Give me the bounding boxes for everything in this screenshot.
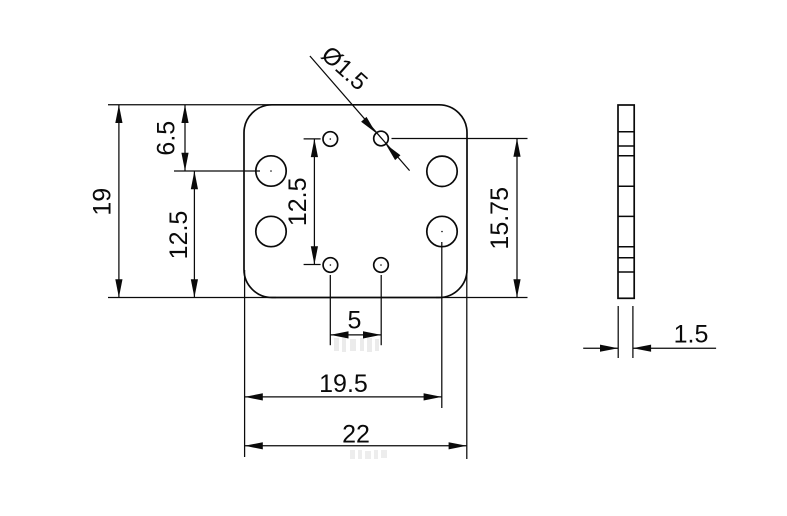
dimension line 1.5 left segment bbox=[583, 347, 618, 349]
svg-text:12.5: 12.5 bbox=[284, 177, 312, 226]
dimension line 12.5 inner bbox=[313, 139, 315, 265]
hole small top-right bbox=[374, 131, 389, 146]
side view plate outline bbox=[618, 105, 634, 298]
inner 12.5 bottom tick bbox=[304, 264, 321, 266]
extension line small-hole right (15.75) bbox=[392, 138, 528, 140]
arrow 22 right bbox=[449, 442, 467, 449]
extension line right-hole down (19.5) bbox=[441, 242, 443, 408]
extension line 5 right bbox=[380, 275, 382, 345]
dimension texts bbox=[89, 41, 709, 448]
arrowheads bbox=[115, 105, 651, 450]
hole large top-right bbox=[427, 156, 457, 186]
plate outline front view bbox=[244, 105, 467, 298]
hole large bottom-left bbox=[256, 216, 286, 246]
hole large bottom-right bbox=[427, 216, 457, 246]
arrow 12.5L bottom bbox=[191, 279, 198, 297]
svg-text:19.5: 19.5 bbox=[319, 370, 368, 398]
extension line left-hole-center (6.5 / 12.5) bbox=[174, 170, 260, 172]
arrow leader lower bbox=[386, 144, 401, 160]
svg-text:12.5: 12.5 bbox=[165, 211, 193, 260]
dimension line 1.5 right segment bbox=[633, 347, 716, 349]
hole small top-left bbox=[323, 132, 338, 147]
svg-text:22: 22 bbox=[342, 420, 370, 448]
arrow 12.5 inner top bbox=[311, 139, 318, 157]
dimension line 22 bbox=[245, 445, 467, 447]
side view hole edge lines bbox=[618, 132, 634, 272]
arrow 19 bottom bbox=[115, 279, 122, 297]
hole center dots bbox=[270, 138, 443, 266]
dimension line 5 bbox=[330, 334, 381, 336]
inner 12.5 top tick bbox=[304, 138, 321, 140]
hole large top-left bbox=[256, 156, 286, 186]
side extension line left (1.5) bbox=[617, 306, 619, 358]
dimension line 19.5 bbox=[245, 396, 442, 398]
dimension line 12.5 left bbox=[193, 171, 195, 298]
arrow 15.75 top bbox=[513, 139, 520, 157]
arrow 6.5 bottom bbox=[181, 153, 188, 171]
side extension line right (1.5) bbox=[632, 306, 634, 358]
svg-text:1.5: 1.5 bbox=[674, 321, 709, 349]
arrow leader upper bbox=[361, 117, 376, 133]
svg-text:6.5: 6.5 bbox=[153, 121, 181, 156]
extension line 5 left bbox=[329, 275, 331, 345]
arrow 6.5 top bbox=[181, 105, 188, 123]
arrow 22 left bbox=[245, 442, 263, 449]
dimension line 15.75 bbox=[516, 139, 518, 298]
arrow 19 top bbox=[115, 105, 122, 123]
extension line bottom-left (19 / 12.5) bbox=[108, 297, 276, 299]
arrow 15.75 bottom bbox=[513, 279, 520, 297]
extension line top (19 / 6.5) bbox=[108, 104, 276, 106]
arrow 1.5 right bbox=[633, 345, 651, 352]
arrow 19.5 left bbox=[245, 393, 263, 400]
hole small bottom-right bbox=[374, 258, 389, 273]
svg-text:5: 5 bbox=[348, 307, 362, 335]
hole small bottom-left bbox=[323, 258, 338, 273]
extension line plate-right extended bbox=[466, 270, 468, 459]
extension line bottom-right (15.75) bbox=[436, 297, 528, 299]
extension line plate-left extended bbox=[244, 270, 246, 457]
faint watermark remnant under 5 dimension bbox=[334, 338, 379, 352]
arrow 5 right bbox=[363, 331, 381, 338]
faint watermark remnant under 22 dimension bbox=[350, 450, 387, 459]
leader line dia 1.5 bbox=[310, 56, 410, 171]
svg-text:19: 19 bbox=[89, 188, 117, 216]
arrow 1.5 left bbox=[600, 345, 618, 352]
arrow 12.5 inner bottom bbox=[311, 246, 318, 264]
dimension line 6.5 bbox=[184, 105, 186, 171]
arrow 5 left bbox=[330, 331, 348, 338]
svg-text:15.75: 15.75 bbox=[486, 187, 514, 250]
dimension line 19 bbox=[118, 105, 120, 298]
arrow 19.5 right bbox=[424, 393, 442, 400]
arrow 12.5L top bbox=[191, 171, 198, 189]
